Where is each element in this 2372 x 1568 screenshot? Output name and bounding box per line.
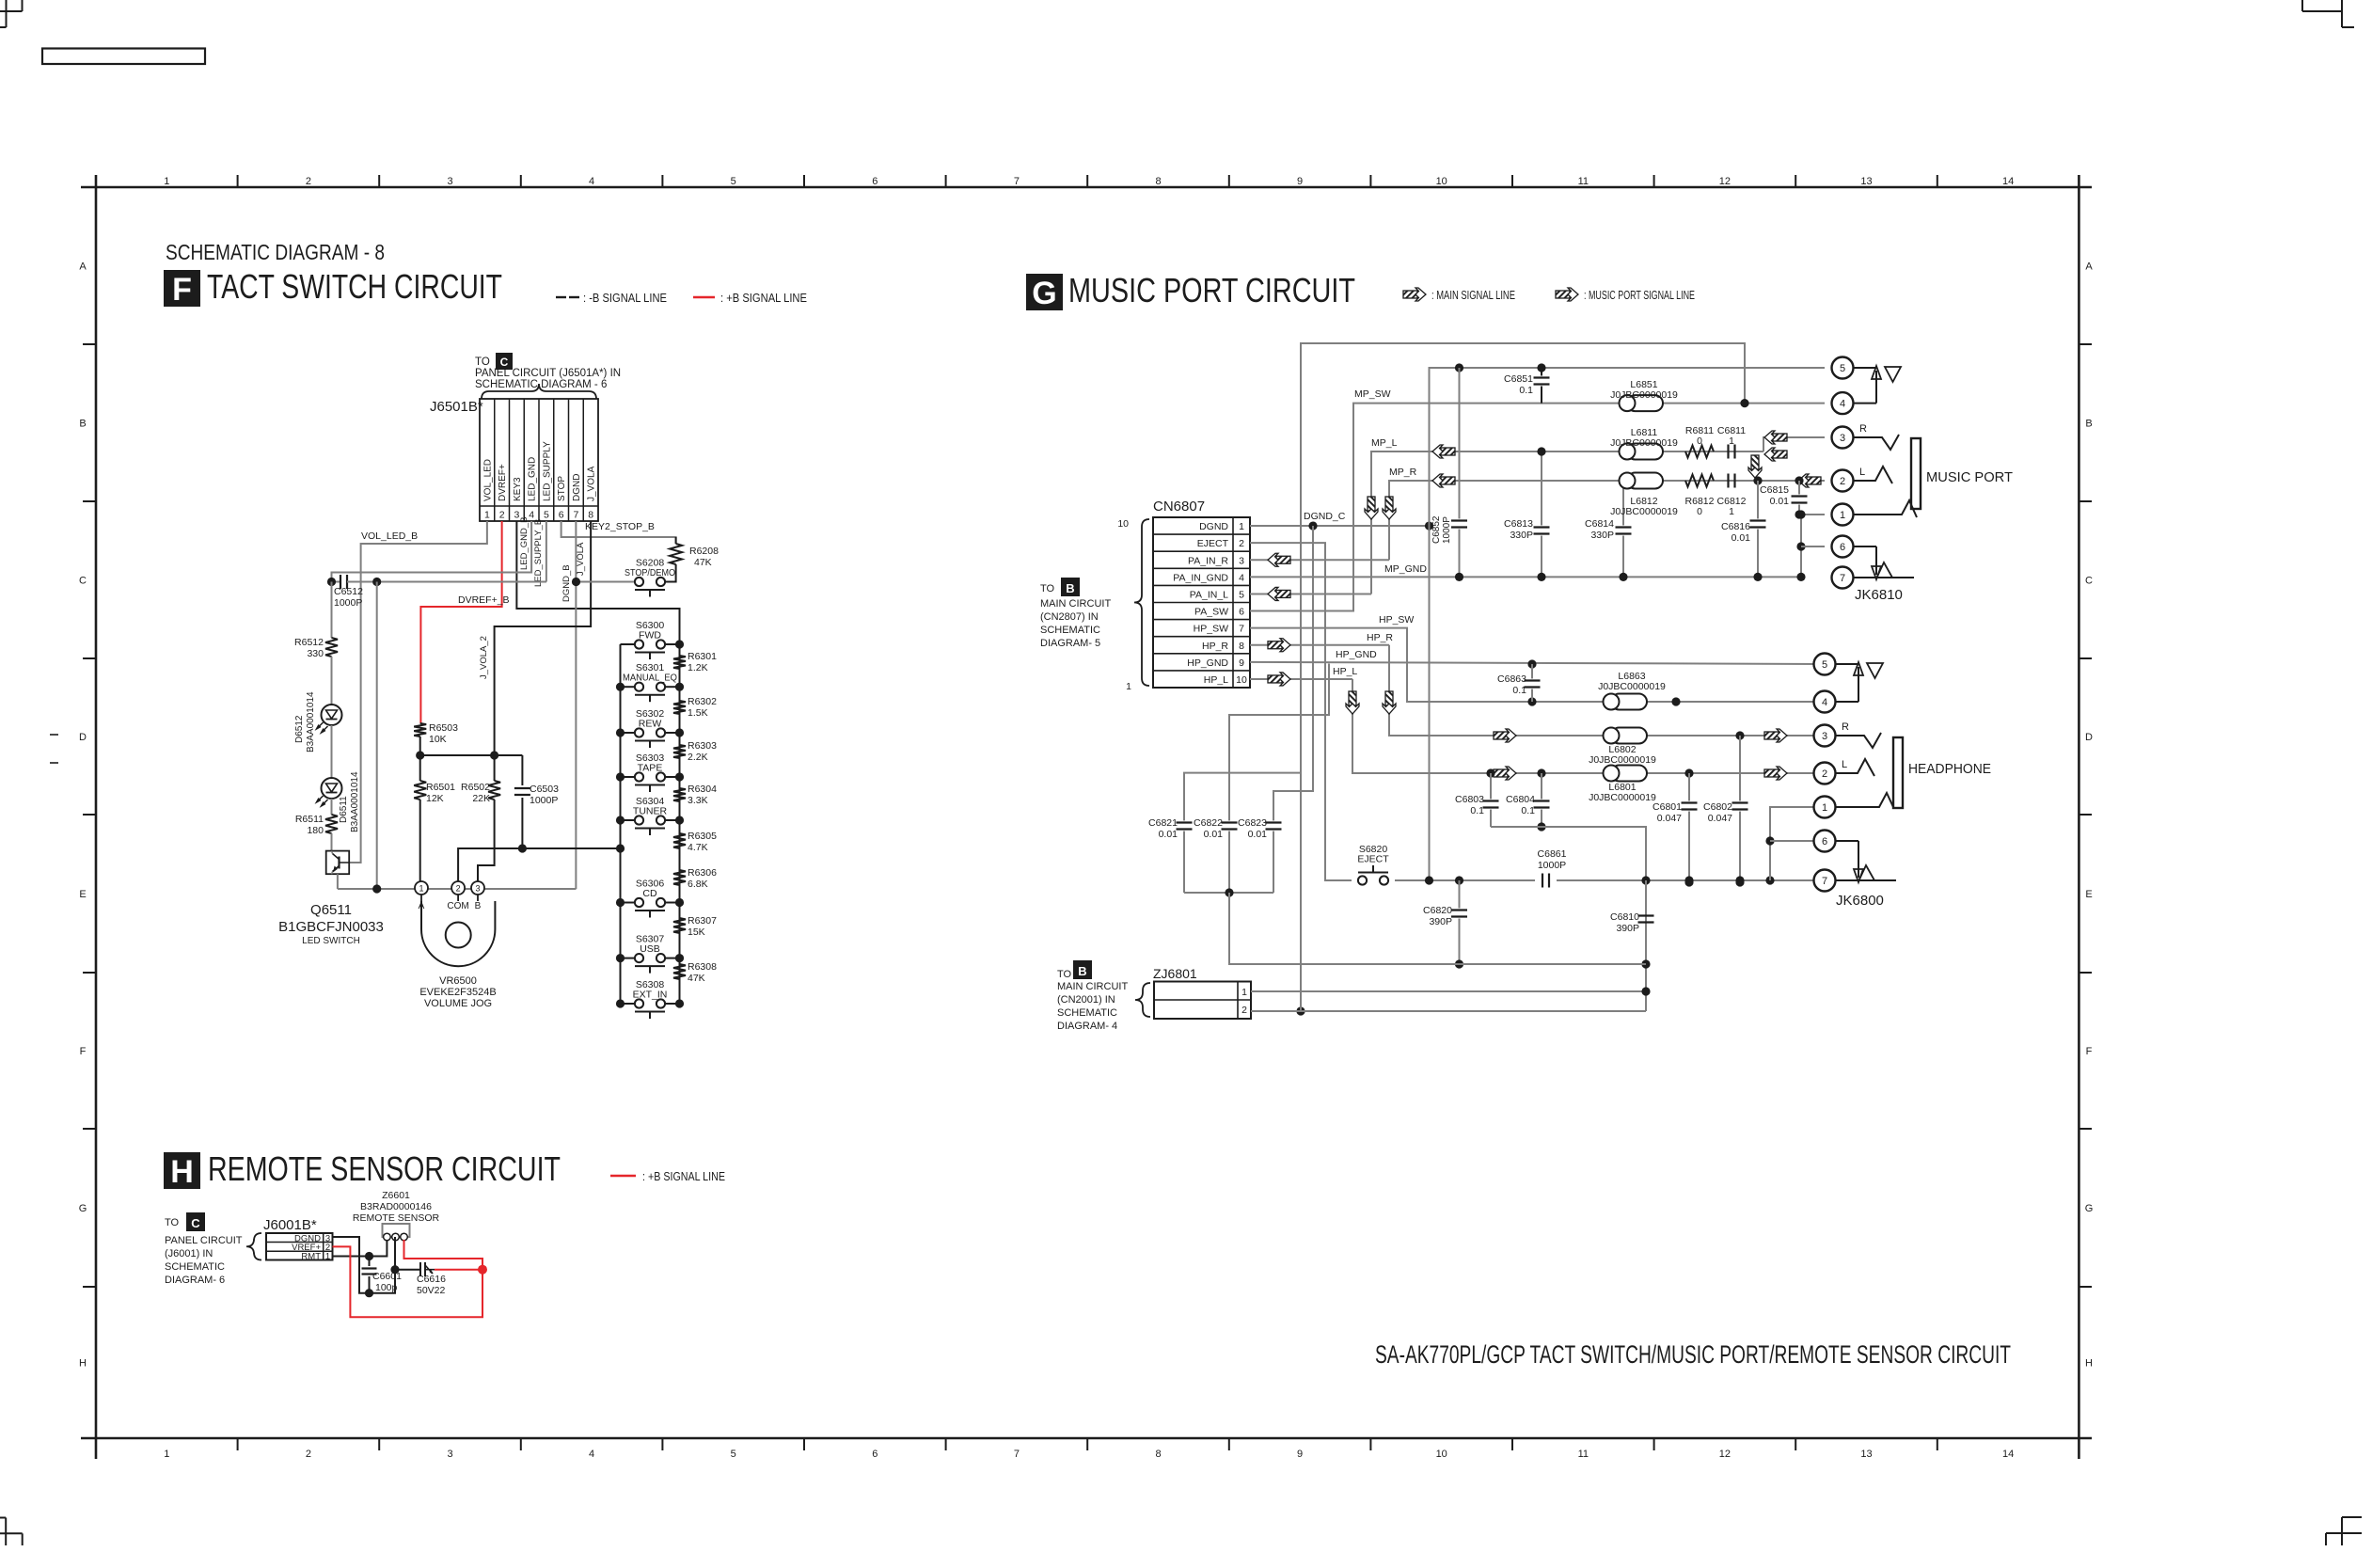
svg-text:MP_R: MP_R	[1389, 467, 1417, 478]
svg-text:LED_SUPPLY: LED_SUPPLY	[542, 441, 552, 501]
svg-text:EVEKE2F3524B: EVEKE2F3524B	[419, 987, 496, 998]
row tick marks and letters	[83, 343, 96, 345]
wire DGND via C6823 branch	[1273, 526, 1313, 815]
JK6800 R contact	[1836, 733, 1882, 748]
svg-text:MP_GND: MP_GND	[1384, 563, 1427, 575]
svg-text:DVREF+_B: DVREF+_B	[458, 594, 510, 606]
capacitor C6804 0.1	[1537, 768, 1545, 777]
wire HP_SW from CN pin 7	[1250, 628, 1825, 702]
resistor R6501 12K	[419, 755, 421, 781]
capacitor C6810 390P	[1645, 880, 1647, 914]
switch S6302 REW	[635, 728, 643, 736]
svg-text:4: 4	[1239, 572, 1244, 583]
svg-text:PANEL CIRCUIT: PANEL CIRCUIT	[165, 1235, 243, 1246]
resistor R6307 15K	[673, 918, 686, 933]
wire DGND from J6001B pin 3	[333, 1237, 396, 1293]
svg-text:5: 5	[1239, 589, 1244, 600]
svg-text:J_VOLA: J_VOLA	[587, 466, 597, 501]
capacitor C6512 1000P	[332, 581, 341, 583]
wire stop line through C6512	[577, 581, 635, 583]
jack JK6810 pin 4	[1832, 392, 1854, 414]
svg-text:7: 7	[1014, 176, 1020, 187]
svg-text:J0JBC0000019: J0JBC0000019	[1610, 389, 1678, 401]
resistor R6302 1.5K	[673, 701, 686, 714]
svg-text:E: E	[79, 889, 86, 900]
svg-text:0.01: 0.01	[1770, 496, 1790, 507]
svg-text:C6804: C6804	[1506, 794, 1535, 805]
resistor R6308 47K	[673, 964, 686, 979]
svg-text:A: A	[79, 261, 87, 273]
svg-text:0.01: 0.01	[1732, 532, 1751, 544]
svg-text:D6512: D6512	[294, 715, 305, 743]
svg-text:R6304: R6304	[688, 784, 717, 795]
svg-text:7: 7	[1014, 1449, 1020, 1460]
wire HP_SW branch to C6821	[1184, 773, 1301, 815]
svg-text:330: 330	[307, 648, 324, 659]
svg-text:VOLUME JOG: VOLUME JOG	[424, 998, 492, 1009]
svg-text:VR6500: VR6500	[439, 975, 477, 987]
svg-text:180: 180	[307, 825, 324, 836]
svg-text:1: 1	[1729, 436, 1734, 447]
svg-text:8: 8	[1239, 641, 1244, 652]
svg-text:C6852: C6852	[1431, 515, 1442, 544]
svg-text:J0JBC0000019: J0JBC0000019	[1598, 681, 1666, 692]
remote sensor Z6601 body	[383, 1224, 410, 1237]
transistor Q6511 B1GBCFJN0033 LED SWITCH	[326, 851, 350, 875]
capacitor C6616 50V22	[419, 1262, 421, 1276]
jack JK6800 pin 3	[1814, 725, 1836, 747]
capacitor C6803 0.1	[1486, 768, 1494, 777]
legend music port signal line arrow	[1556, 288, 1578, 301]
svg-text:HP_GND: HP_GND	[1336, 649, 1377, 660]
svg-text:B: B	[1078, 964, 1086, 978]
svg-text:15K: 15K	[688, 927, 705, 938]
brace left of J6001B	[246, 1233, 261, 1260]
svg-text:J_VOLA_2: J_VOLA_2	[479, 636, 489, 679]
svg-text:R6308: R6308	[688, 961, 717, 973]
resistor R6301 1.2K	[673, 656, 686, 669]
JK6810 L contact	[1854, 467, 1893, 483]
resistor R6304 3.3K	[673, 788, 686, 801]
section F letter box	[164, 270, 200, 307]
svg-text:REW: REW	[639, 719, 662, 730]
jack JK6800 pin 4	[1814, 691, 1836, 713]
jack JK6800 pin 5	[1814, 654, 1836, 675]
svg-text:H: H	[2085, 1358, 2093, 1370]
svg-text:(CN2001) IN: (CN2001) IN	[1057, 994, 1115, 1006]
svg-text:D6511: D6511	[339, 796, 349, 823]
svg-text:: MUSIC PORT SIGNAL LINE: : MUSIC PORT SIGNAL LINE	[1584, 289, 1695, 302]
svg-text:10: 10	[1436, 176, 1447, 187]
JK6800 ground symbol pins 6-7	[1836, 840, 1859, 842]
capacitor C6861 1000P	[1542, 874, 1543, 888]
registration crop mark top-left	[6, 0, 8, 27]
svg-text:F: F	[2086, 1046, 2093, 1057]
svg-text:TO: TO	[475, 356, 490, 368]
svg-text:SA-AK770PL/GCP TACT SWITCH/MUS: SA-AK770PL/GCP TACT SWITCH/MUSIC PORT/RE…	[1375, 1340, 2011, 1369]
capacitor C6851 0.1	[1541, 368, 1542, 376]
svg-text:4: 4	[529, 510, 534, 521]
svg-text:D: D	[2085, 732, 2093, 743]
svg-text:B3AA0001014: B3AA0001014	[306, 691, 316, 752]
svg-text:1000P: 1000P	[1538, 860, 1566, 871]
svg-text:FWD: FWD	[639, 630, 661, 641]
svg-text:J0JBC0000019: J0JBC0000019	[1589, 754, 1656, 766]
resistor R6512 330	[325, 638, 338, 657]
svg-text:1: 1	[484, 510, 490, 521]
svg-text:Z6601: Z6601	[382, 1190, 410, 1201]
svg-text:DIAGRAM- 5: DIAGRAM- 5	[1040, 638, 1100, 649]
svg-text:VOL_LED: VOL_LED	[482, 459, 493, 501]
capacitor C6812 1	[1727, 474, 1729, 488]
junction node mid resistor network	[420, 754, 523, 756]
wire PA_IN_GND / MP_GND	[1250, 576, 1801, 578]
switch S6820 EJECT	[1358, 876, 1367, 884]
wire JK6810 pin1 pin6 ground rail	[1795, 510, 1803, 518]
svg-text:1.2K: 1.2K	[688, 662, 708, 673]
section G letter box	[1026, 274, 1063, 310]
svg-text:JK6800: JK6800	[1836, 893, 1884, 909]
svg-text:6: 6	[559, 510, 564, 521]
wire HP_GND from CN pin 9	[1250, 662, 1825, 664]
svg-text:C6802: C6802	[1703, 801, 1732, 813]
svg-text:0.1: 0.1	[1519, 385, 1533, 396]
svg-text:C6823: C6823	[1238, 817, 1267, 829]
svg-text:SCHEMATIC: SCHEMATIC	[165, 1261, 225, 1273]
wire C6822 down to bottom	[1229, 893, 1646, 964]
wire KEY3 from pin 3 to switch column	[516, 521, 679, 644]
brace over connector J6501B	[482, 384, 596, 399]
inductor L6801 J0JBC0000019	[1494, 767, 1516, 780]
jack JK6810 pin 2	[1832, 470, 1854, 492]
svg-text:J0JBC0000019: J0JBC0000019	[1610, 437, 1678, 449]
wire HP_R from CN pin 8	[1250, 644, 1389, 646]
svg-text:0.01: 0.01	[1204, 829, 1224, 840]
wire J_VOLA_2 from pin 8	[495, 521, 592, 781]
svg-text:J_VOLA: J_VOLA	[576, 542, 586, 576]
svg-text:D: D	[79, 732, 87, 743]
svg-text:TO: TO	[1057, 969, 1072, 980]
svg-text:4: 4	[1822, 697, 1827, 708]
svg-text:B: B	[475, 901, 482, 911]
svg-text:C6851: C6851	[1504, 373, 1533, 385]
svg-text:0: 0	[1697, 506, 1702, 517]
switch S6300 FWD	[635, 640, 643, 648]
svg-text:0.01: 0.01	[1248, 829, 1268, 840]
svg-text:HP_L: HP_L	[1204, 674, 1228, 686]
svg-text:5: 5	[1840, 363, 1845, 374]
svg-text:R6512: R6512	[294, 637, 324, 648]
svg-text:DIAGRAM- 4: DIAGRAM- 4	[1057, 1021, 1117, 1032]
svg-text:LED SWITCH: LED SWITCH	[302, 936, 360, 946]
wire C6803 C6804 bottoms to right rail	[1491, 827, 1646, 1011]
svg-text:1: 1	[1126, 681, 1131, 692]
svg-text:13: 13	[1860, 176, 1872, 187]
music port signal down arrows on MP_L MP_R	[1365, 497, 1378, 519]
wire volume COM to switch rail	[458, 848, 620, 881]
junction dot DGND_B / stop line	[572, 578, 580, 586]
svg-text:HP_R: HP_R	[1202, 641, 1228, 652]
svg-text:PANEL CIRCUIT (J6501A*) IN: PANEL CIRCUIT (J6501A*) IN	[475, 368, 621, 379]
JK6810 R contact	[1854, 435, 1900, 450]
svg-text:: +B SIGNAL LINE: : +B SIGNAL LINE	[720, 292, 807, 305]
svg-text:6: 6	[1822, 836, 1827, 847]
svg-text:1: 1	[164, 176, 169, 187]
svg-text:C6863: C6863	[1497, 673, 1526, 685]
brace left of CN6807	[1134, 519, 1149, 686]
svg-text:R6301: R6301	[688, 651, 717, 662]
svg-text:9: 9	[1239, 657, 1244, 669]
svg-text:10: 10	[1236, 674, 1247, 686]
svg-text:C6820: C6820	[1423, 905, 1452, 916]
svg-text:R6302: R6302	[688, 696, 717, 707]
jack JK6810 pin 6	[1832, 536, 1854, 558]
svg-text:5: 5	[544, 510, 549, 521]
red junction dot	[478, 1265, 487, 1275]
svg-text:R6503: R6503	[429, 722, 458, 734]
JK6800 L contact	[1836, 759, 1875, 776]
resistor R6208 47K	[675, 537, 677, 544]
wire ZJ6801 pin 1	[1251, 990, 1646, 992]
svg-text:C6616: C6616	[417, 1274, 446, 1285]
svg-text:TAPE: TAPE	[638, 763, 663, 774]
switch column rails	[620, 644, 622, 1004]
wire MP_L to JK6810 pin 3	[1763, 437, 1825, 451]
column tick marks and numbers	[237, 175, 239, 187]
svg-text:1: 1	[325, 1252, 330, 1262]
svg-text:1000P: 1000P	[1442, 516, 1452, 544]
jack JK6810 pin 5	[1832, 357, 1854, 379]
jack JK6810 pin 1	[1832, 504, 1854, 526]
registration crop mark bottom-left	[0, 1517, 6, 1519]
wire MP_R to JK6810 pin 2	[1758, 480, 1825, 482]
junction dots and stubs on switch rails	[621, 643, 636, 645]
svg-text:5: 5	[731, 176, 736, 187]
JK6810 tip contact	[1854, 500, 1918, 517]
svg-text:47K: 47K	[694, 557, 712, 568]
inductor L6851 J0JBC0000019	[1627, 395, 1663, 411]
capacitor C6601 100p	[369, 1257, 371, 1267]
wire C6821 C6823 join line	[1184, 892, 1273, 894]
svg-text:LED_SUPPLY_B: LED_SUPPLY_B	[533, 519, 544, 587]
svg-text:MP_L: MP_L	[1371, 437, 1398, 449]
svg-text:PA_IN_L: PA_IN_L	[1190, 589, 1228, 600]
music port arrow down near C6815	[1748, 455, 1762, 478]
svg-text:6.8K: 6.8K	[688, 879, 708, 890]
svg-text:DGND_B: DGND_B	[561, 564, 572, 602]
svg-text:3: 3	[447, 1449, 452, 1460]
capacitor C6816 0.01	[1757, 481, 1759, 519]
svg-text:2: 2	[499, 510, 505, 521]
svg-text:F: F	[80, 1046, 87, 1057]
svg-text:B: B	[1066, 581, 1074, 595]
svg-text:MUSIC PORT CIRCUIT: MUSIC PORT CIRCUIT	[1068, 271, 1355, 309]
svg-text:2: 2	[1239, 538, 1244, 549]
svg-text:12: 12	[1719, 176, 1731, 187]
svg-text:7: 7	[1822, 876, 1827, 887]
switch S6307 USB	[635, 954, 643, 962]
svg-text:1: 1	[1729, 506, 1734, 517]
resistor R6503 10K	[414, 723, 426, 736]
svg-text:11: 11	[1578, 1449, 1589, 1460]
svg-text:8: 8	[1155, 176, 1161, 187]
svg-text:E: E	[2085, 889, 2092, 900]
svg-text:SCHEMATIC: SCHEMATIC	[1057, 1007, 1117, 1019]
svg-text:C6503: C6503	[530, 784, 559, 795]
svg-text:1: 1	[1241, 987, 1247, 998]
svg-text:13: 13	[1860, 1449, 1872, 1460]
svg-text:3.3K: 3.3K	[688, 795, 708, 806]
connector J6501B*	[480, 399, 598, 521]
svg-text:R6303: R6303	[688, 740, 717, 752]
svg-text:9: 9	[1297, 176, 1303, 187]
svg-text:(J6001) IN: (J6001) IN	[165, 1248, 213, 1259]
connector J6001B*	[266, 1233, 333, 1260]
resistor R6303 2.2K	[673, 745, 686, 758]
wire C6823 top jog	[1273, 791, 1274, 815]
svg-text:14: 14	[2002, 176, 2014, 187]
LED D6512 B3AA0001014	[322, 705, 342, 725]
svg-text:1.5K: 1.5K	[688, 707, 708, 719]
svg-text:R6306: R6306	[688, 867, 717, 879]
wire gray vertical from C6512 right to bottom rail	[376, 582, 378, 890]
svg-text:10: 10	[1436, 1449, 1447, 1460]
resistor R6812 0	[1685, 475, 1714, 487]
connector ZJ6801	[1154, 982, 1251, 1020]
wire JK6810 pin5 rail	[1430, 368, 1826, 526]
legend +B signal line (section F)	[693, 296, 715, 298]
jack JK6800 pin 1	[1814, 797, 1836, 818]
svg-text:RMT: RMT	[301, 1252, 321, 1262]
switch S6303 TAPE	[635, 772, 643, 781]
svg-text:0.1: 0.1	[1512, 685, 1526, 696]
svg-text:: -B SIGNAL LINE: : -B SIGNAL LINE	[583, 292, 667, 305]
wire EJECT from CN pin 2	[1250, 543, 1352, 880]
legend main signal line arrow	[1403, 288, 1426, 301]
wire VREF+ +B red net	[333, 1246, 483, 1317]
svg-text:DGND_C: DGND_C	[1304, 511, 1346, 522]
section H letter box	[164, 1152, 200, 1189]
svg-text:9: 9	[1297, 1449, 1303, 1460]
svg-text:2: 2	[1241, 1005, 1247, 1016]
resistor R6511 180	[325, 815, 338, 833]
svg-text:CD: CD	[642, 888, 657, 899]
capacitor C6802 0.047	[1735, 731, 1744, 739]
svg-text:50V22: 50V22	[417, 1285, 446, 1296]
brace left of ZJ6801	[1135, 983, 1150, 1017]
svg-text:6: 6	[1840, 542, 1845, 553]
svg-text:B3RAD0000146: B3RAD0000146	[360, 1201, 432, 1212]
svg-text:7: 7	[1239, 624, 1244, 635]
svg-text:H: H	[79, 1358, 87, 1370]
svg-text:330P: 330P	[1590, 530, 1614, 541]
svg-text:JK6810: JK6810	[1855, 587, 1903, 603]
switch S6301 MANUAL_EQ	[635, 683, 643, 691]
fold marks left margin	[50, 734, 58, 736]
jack JK6800 pin 2	[1814, 763, 1836, 784]
svg-text:F: F	[172, 272, 192, 308]
inductor L6863 J0JBC0000019	[1611, 694, 1647, 710]
svg-text:REMOTE SENSOR: REMOTE SENSOR	[353, 1212, 440, 1224]
svg-text:4: 4	[589, 1449, 594, 1460]
svg-text:1000P: 1000P	[530, 795, 558, 806]
svg-text:1: 1	[1840, 510, 1845, 521]
svg-text:2: 2	[1840, 476, 1845, 487]
svg-text:8: 8	[588, 510, 593, 521]
svg-text:47K: 47K	[688, 973, 705, 984]
wire KEY2_STOP_B from pin 6	[561, 521, 676, 544]
svg-text:C: C	[2085, 576, 2093, 587]
svg-text:C6801: C6801	[1652, 801, 1682, 813]
svg-text:6: 6	[872, 1449, 878, 1460]
svg-text:2: 2	[1822, 768, 1827, 780]
svg-text:0.1: 0.1	[1521, 805, 1535, 816]
svg-text:5: 5	[1822, 659, 1827, 671]
svg-text:R: R	[1859, 423, 1867, 435]
svg-text:R: R	[1842, 721, 1849, 733]
svg-text:6: 6	[872, 176, 878, 187]
registration crop mark top-right	[2341, 0, 2343, 27]
svg-text:0.047: 0.047	[1657, 813, 1682, 824]
svg-text:0.1: 0.1	[1470, 805, 1484, 816]
jack JK6800 pin 7	[1814, 870, 1836, 892]
svg-text:COM: COM	[447, 901, 468, 911]
capacitor C6811 1	[1727, 445, 1729, 459]
svg-text:LED_GND: LED_GND	[528, 457, 538, 501]
svg-text:EJECT: EJECT	[1197, 538, 1229, 549]
registration crop mark bottom-right	[2342, 1516, 2362, 1518]
svg-text:HP_L: HP_L	[1333, 666, 1357, 677]
svg-text:KEY2_STOP_B: KEY2_STOP_B	[585, 521, 655, 532]
svg-text:1000P: 1000P	[334, 597, 362, 609]
svg-text:TO: TO	[1040, 583, 1055, 594]
svg-text:C6803: C6803	[1455, 794, 1484, 805]
svg-text:HP_GND: HP_GND	[1187, 657, 1228, 669]
svg-text:C6813: C6813	[1504, 518, 1533, 530]
svg-text:7: 7	[1840, 573, 1845, 584]
svg-text:22K: 22K	[472, 793, 490, 804]
svg-text:R6208: R6208	[689, 546, 719, 557]
svg-text:3: 3	[1840, 433, 1845, 444]
wire PA_IN_R / MP_R	[1250, 559, 1389, 561]
svg-text:C6512: C6512	[334, 586, 363, 597]
svg-text:DGND: DGND	[572, 474, 582, 501]
svg-text:R6307: R6307	[688, 915, 717, 927]
capacitor C6813 330P	[1541, 451, 1542, 526]
capacitor C6814 330P	[1622, 481, 1624, 526]
svg-text:2: 2	[306, 1449, 311, 1460]
switch S6308 EXT_IN	[635, 999, 643, 1007]
svg-text:TO: TO	[165, 1217, 180, 1228]
capacitor C6852 1000P	[1459, 368, 1461, 519]
svg-text:: MAIN SIGNAL LINE: : MAIN SIGNAL LINE	[1431, 289, 1515, 302]
svg-text:KEY3: KEY3	[513, 477, 523, 501]
svg-text:: +B SIGNAL LINE: : +B SIGNAL LINE	[642, 1170, 725, 1183]
inductor L6812 J0JBC0000019	[1627, 473, 1663, 489]
inductor L6811 J0JBC0000019	[1627, 444, 1663, 460]
svg-text:0.047: 0.047	[1708, 813, 1732, 824]
LED chain vertical wire	[331, 582, 333, 639]
svg-text:STOP/DEMO: STOP/DEMO	[625, 567, 675, 578]
svg-text:C: C	[79, 576, 87, 587]
svg-text:TUNER: TUNER	[633, 806, 668, 817]
jack JK6810 pin 7	[1832, 567, 1854, 589]
svg-text:3: 3	[447, 176, 452, 187]
svg-text:DVREF+: DVREF+	[498, 464, 508, 501]
svg-text:HP_SW: HP_SW	[1194, 624, 1228, 635]
svg-text:USB: USB	[640, 943, 660, 955]
svg-text:CN6807: CN6807	[1153, 499, 1205, 515]
